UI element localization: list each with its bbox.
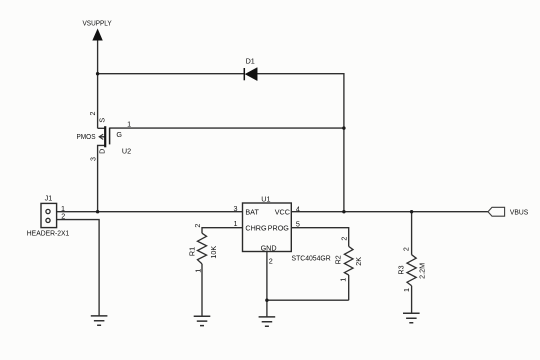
svg-text:2.2M: 2.2M (417, 263, 426, 279)
svg-text:GND: GND (261, 244, 277, 253)
svg-text:1: 1 (127, 119, 131, 128)
svg-text:S: S (97, 118, 106, 123)
svg-text:U1: U1 (261, 194, 270, 203)
svg-text:J1: J1 (45, 194, 53, 203)
svg-text:2: 2 (61, 211, 65, 220)
svg-text:G: G (116, 130, 122, 139)
svg-text:1: 1 (402, 288, 411, 292)
svg-text:R3: R3 (397, 265, 406, 274)
svg-text:PROG: PROG (268, 224, 290, 233)
svg-text:VSUPPLY: VSUPPLY (83, 19, 112, 28)
svg-text:BAT: BAT (245, 207, 259, 216)
svg-text:4: 4 (296, 205, 300, 214)
svg-text:2: 2 (193, 224, 202, 228)
svg-text:2: 2 (269, 256, 273, 265)
svg-text:1: 1 (193, 269, 202, 273)
svg-text:2: 2 (339, 237, 348, 241)
svg-text:3: 3 (88, 157, 97, 161)
svg-text:VCC: VCC (275, 207, 290, 216)
svg-text:D1: D1 (246, 57, 255, 66)
svg-text:3: 3 (234, 204, 238, 213)
svg-text:2: 2 (402, 247, 411, 251)
svg-text:HEADER-2X1: HEADER-2X1 (27, 229, 70, 238)
svg-text:R2: R2 (333, 255, 342, 264)
svg-text:1: 1 (234, 219, 238, 228)
svg-text:U2: U2 (122, 146, 131, 155)
svg-text:PMOS: PMOS (77, 132, 96, 141)
svg-text:R1: R1 (188, 247, 197, 256)
svg-text:VBUS: VBUS (510, 207, 528, 216)
svg-text:5: 5 (296, 220, 300, 229)
svg-text:D: D (98, 149, 107, 154)
svg-text:2K: 2K (354, 257, 363, 266)
svg-text:STC4054GR: STC4054GR (292, 254, 331, 263)
svg-text:1: 1 (339, 278, 348, 282)
svg-text:2: 2 (88, 112, 97, 116)
svg-text:CHRG: CHRG (245, 224, 267, 233)
svg-text:10K: 10K (209, 246, 218, 259)
